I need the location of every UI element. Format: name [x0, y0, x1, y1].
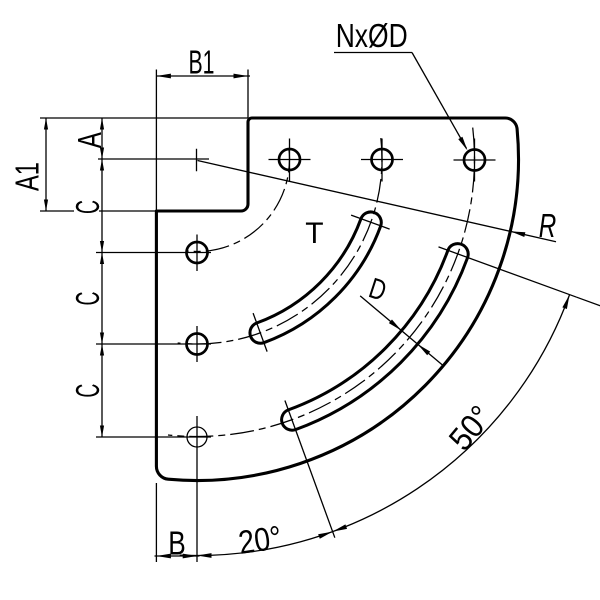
- A1 arrow down: [44, 200, 48, 212]
- C3 arrow up: [100, 344, 104, 356]
- hole T2 horizontal tick: [361, 159, 403, 161]
- C1 arrow down: [100, 241, 104, 253]
- A1 arrow up: [44, 118, 48, 130]
- hole T1 horizontal tick: [269, 159, 311, 161]
- extension line y=118 (top edge level): [40, 117, 248, 119]
- centre mark vertical tick: [196, 149, 198, 172]
- svg-text:B: B: [168, 525, 186, 562]
- C2 arrow up: [100, 253, 104, 265]
- D arrow at slot inner edge: [389, 319, 402, 330]
- 50deg arc arrow ccw side: [333, 524, 347, 531]
- hole top row 2: [372, 149, 393, 170]
- B1 arrow right: [234, 74, 249, 79]
- hole left column 3 (thin): [187, 427, 207, 447]
- hole left column 2: [187, 334, 208, 355]
- extension line row y=251.5: [96, 252, 211, 254]
- inner slot upper cap radial tick: [351, 215, 390, 229]
- B dimension line: [155, 555, 200, 557]
- A+C chain dimension line x=102: [101, 118, 103, 437]
- svg-text:R: R: [539, 207, 557, 244]
- plate outline: [156, 118, 518, 480]
- B1 right extension x=248: [247, 70, 249, 119]
- extension line row y=344: [96, 343, 211, 345]
- 20deg radial continuation to edge: [577, 297, 600, 306]
- hole L1 vertical tick: [196, 235, 198, 272]
- outer slot upper cap tick + 20deg radial dim line: [439, 247, 577, 297]
- inner slot lower cap radial tick: [253, 313, 267, 352]
- hole top row 1: [279, 149, 300, 170]
- outer slot lower cap tick + 70deg radial dim line: [285, 401, 335, 538]
- svg-text:NxØD: NxØD: [336, 17, 408, 54]
- svg-text:20°: 20°: [236, 518, 284, 561]
- hole T3 horizontal tick: [454, 159, 496, 161]
- R leader arrow at plate edge: [511, 231, 526, 237]
- hole L3 vertical tick + B extension: [196, 416, 198, 562]
- D arrow at slot outer edge: [418, 344, 431, 355]
- svg-text:C: C: [69, 292, 106, 306]
- svg-text:A1: A1: [9, 162, 46, 191]
- D leader radial line 40deg: [360, 296, 442, 365]
- arc slot inner (r185): [250, 212, 381, 343]
- B1 left extension x=156.4: [155, 70, 157, 212]
- svg-text:C: C: [69, 200, 106, 214]
- svg-text:50°: 50°: [441, 398, 499, 457]
- C1 arrow up: [100, 159, 104, 171]
- 20deg arc arrow at 70deg radial: [318, 532, 332, 539]
- svg-text:T: T: [305, 217, 323, 250]
- hole T3 vertical tick: [474, 139, 476, 182]
- angular dimension arc: [180, 295, 570, 556]
- A arrow down: [100, 148, 104, 160]
- NxOD leader arrow: [458, 137, 467, 151]
- NxOD leader line: [412, 53, 467, 149]
- A1 dimension line x=46: [45, 118, 47, 211]
- B arrow left: [156, 554, 171, 559]
- bolt-circle centreline arc r92.5: [187, 149, 289, 252]
- hole L2 vertical tick: [196, 326, 198, 362]
- R leader line: [198, 161, 557, 242]
- hole T2 vertical tick: [381, 139, 383, 182]
- extension line y=211 right part: [99, 210, 156, 212]
- bolt-circle centreline arc r277.5: [168, 128, 475, 437]
- svg-text:C: C: [69, 384, 106, 398]
- arc slot outer (r277): [282, 244, 469, 431]
- NxOD underline: [334, 52, 412, 54]
- extension line row y=436.5: [96, 436, 211, 438]
- bolt-circle centreline arc r185: [178, 138, 382, 344]
- B left extension x=156.4: [155, 483, 157, 562]
- svg-text:A: A: [71, 132, 108, 148]
- hole left column 1: [187, 242, 208, 263]
- svg-text:D: D: [365, 272, 390, 307]
- hole T1 vertical tick: [289, 139, 291, 182]
- 20deg arc arrow at bottom: [197, 553, 212, 558]
- extension line y=211 left part: [40, 210, 74, 212]
- hole top row 3: [464, 150, 485, 171]
- B arrow right: [183, 554, 198, 559]
- B1 arrow left: [156, 74, 171, 79]
- extension/centre line y=159: [98, 158, 209, 160]
- C3 arrow down: [100, 426, 104, 438]
- A arrow up: [100, 118, 104, 130]
- svg-text:B1: B1: [189, 44, 215, 81]
- 50deg arc arrow at 20deg radial: [562, 295, 569, 309]
- B1 dimension line: [156, 75, 250, 77]
- C2 arrow down: [100, 333, 104, 345]
